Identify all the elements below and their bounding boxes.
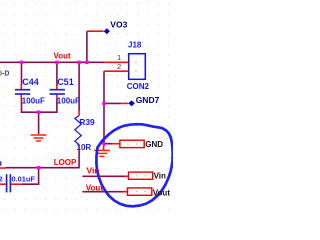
svg-text:2: 2 <box>0 174 3 183</box>
svg-text:0.01uF: 0.01uF <box>12 174 36 183</box>
svg-text:R39: R39 <box>79 117 95 127</box>
svg-text:CON2: CON2 <box>127 82 150 91</box>
svg-text:Vout: Vout <box>153 189 171 198</box>
svg-text:10R: 10R <box>77 143 92 152</box>
svg-text:Vin: Vin <box>154 172 166 181</box>
svg-text:GND7: GND7 <box>136 95 160 105</box>
svg-text:LOOP: LOOP <box>54 158 77 167</box>
svg-text:VO3: VO3 <box>110 19 127 29</box>
svg-text:C44: C44 <box>22 77 39 87</box>
svg-text:GND: GND <box>145 140 163 149</box>
svg-text:J18: J18 <box>128 40 142 49</box>
svg-text:2: 2 <box>117 62 121 71</box>
svg-text:Vout: Vout <box>54 52 72 61</box>
svg-text:100uF: 100uF <box>57 97 80 106</box>
svg-text:-D: -D <box>2 71 9 78</box>
svg-text:Vin: Vin <box>87 166 100 176</box>
svg-text:C51: C51 <box>57 77 74 87</box>
svg-text:100uF: 100uF <box>22 97 45 106</box>
svg-text:Vout: Vout <box>86 183 104 192</box>
svg-text:1: 1 <box>117 53 121 62</box>
